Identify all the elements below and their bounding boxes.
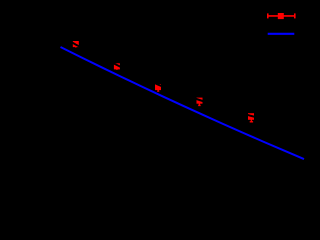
data point P5 errorbar — [250, 116, 253, 122]
legend red errorbar left cap — [267, 13, 269, 18]
legend blue line sample — [268, 33, 295, 35]
data point P4 errorbar — [198, 101, 200, 106]
legend red errorbar right cap — [294, 13, 296, 18]
data point P1 square — [73, 41, 79, 47]
data point P4 square — [197, 98, 203, 104]
data point P3 errorbar — [157, 87, 159, 91]
blue model line — [61, 47, 305, 159]
legend red square marker — [278, 13, 284, 19]
black fit curve — [58, 34, 306, 127]
legend red errorbar sample line — [268, 15, 295, 17]
data point P5 square — [248, 113, 254, 120]
data point P3 square — [155, 84, 161, 90]
data point P2 square — [114, 63, 120, 69]
data point P2 errorbar — [116, 66, 118, 70]
data point P1 errorbar — [75, 44, 77, 48]
